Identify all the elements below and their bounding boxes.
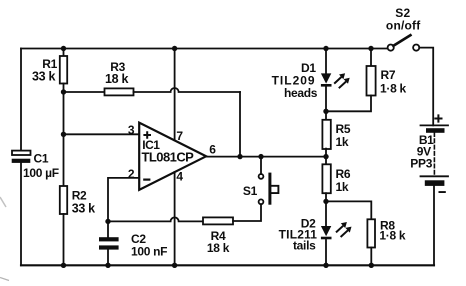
wire left rail upper (20, 49, 22, 151)
node R1 top (61, 46, 66, 51)
LED D1 symbol (321, 73, 332, 86)
node R7 top (368, 46, 373, 51)
capacitor C1 (12, 151, 31, 155)
svg-text:R5: R5 (336, 122, 351, 136)
node D1 top (323, 46, 328, 51)
wire C2 node to R4 with hop over pin4 wire (108, 217, 203, 221)
node C2 bottom (105, 263, 110, 268)
svg-text:TL081CP: TL081CP (142, 150, 195, 165)
resistor R8 (326, 201, 371, 219)
svg-text:2: 2 (128, 167, 135, 181)
node C2 top (105, 219, 110, 224)
diode D1 chain (325, 49, 327, 74)
svg-text:100 µF: 100 µF (23, 166, 59, 180)
wire R3 to feedback corner with hop over pin7 wire (134, 88, 241, 92)
svg-text:PP3: PP3 (410, 156, 432, 170)
node pin3 (61, 132, 66, 137)
wire S1 to output (260, 157, 262, 174)
pushbutton S1 (259, 199, 264, 204)
resistor R2 (60, 186, 67, 214)
resistor R7 (370, 49, 372, 67)
resistor R4 (203, 217, 233, 224)
svg-text:33 k: 33 k (72, 201, 95, 215)
svg-text:18 k: 18 k (105, 72, 128, 86)
switch S2 (388, 45, 394, 51)
node output R5/R6 (323, 154, 328, 159)
wire pin4 supply (174, 172, 176, 265)
wire bottom rail (21, 264, 434, 266)
resistor R1 (63, 49, 65, 57)
scan artifact bottom-left (0, 278, 9, 281)
svg-text:4: 4 (176, 170, 183, 184)
svg-text:3: 3 (128, 123, 135, 137)
resistor R5 (322, 120, 330, 149)
LED D2 arrows (336, 222, 352, 237)
node D1/R7 (323, 109, 328, 114)
LED D1 arrows (334, 73, 350, 88)
svg-text:on/off: on/off (386, 19, 421, 33)
svg-text:tails: tails (293, 239, 316, 253)
node R1-R3 junction (63, 92, 65, 134)
svg-text:R7: R7 (381, 68, 396, 82)
wire inverting input (108, 178, 139, 222)
svg-text:C1: C1 (34, 152, 49, 166)
wire noninverting input (64, 133, 140, 135)
LED D2 symbol (321, 226, 332, 239)
wire R4 to S1 (233, 204, 261, 221)
svg-text:1·8 k: 1·8 k (379, 229, 405, 243)
svg-text:1k: 1k (336, 135, 349, 149)
op-amp U1 triangle (139, 123, 206, 190)
capacitor C2 (107, 221, 109, 237)
battery B1 (421, 124, 449, 126)
svg-text:100 nF: 100 nF (131, 244, 167, 258)
node R1/R3 (61, 89, 66, 94)
svg-text:33 k: 33 k (32, 70, 55, 84)
node output R3 (237, 154, 242, 159)
scan artifact left edge (0, 197, 6, 207)
svg-text:6: 6 (209, 143, 216, 157)
wire S2 to battery (419, 48, 433, 126)
resistor R6 (322, 164, 330, 193)
svg-text:S1: S1 (243, 184, 258, 198)
svg-text:1·8 k: 1·8 k (380, 82, 406, 96)
wire op-amp output (206, 156, 326, 158)
diode D2 stem (325, 240, 327, 265)
svg-text:heads: heads (284, 86, 318, 100)
svg-text:7: 7 (176, 129, 183, 143)
node R8 bottom (369, 263, 374, 268)
wire top rail (21, 48, 388, 50)
wire feedback vertical (239, 92, 241, 157)
svg-text:R6: R6 (336, 167, 351, 181)
node D2 bottom (323, 263, 328, 268)
svg-text:18 k: 18 k (207, 241, 230, 255)
node R2 bottom (61, 263, 66, 268)
node pin4 bottom (172, 263, 177, 268)
node R6/D2/R8 (323, 199, 328, 204)
wire pin7 supply (174, 49, 176, 141)
node output S1 (258, 154, 263, 159)
resistor R3 (64, 91, 105, 93)
node pin7 top (172, 46, 177, 51)
wire mid vertical to R2 (63, 134, 65, 186)
wire left rail lower (20, 163, 22, 265)
svg-text:1k: 1k (336, 180, 349, 194)
